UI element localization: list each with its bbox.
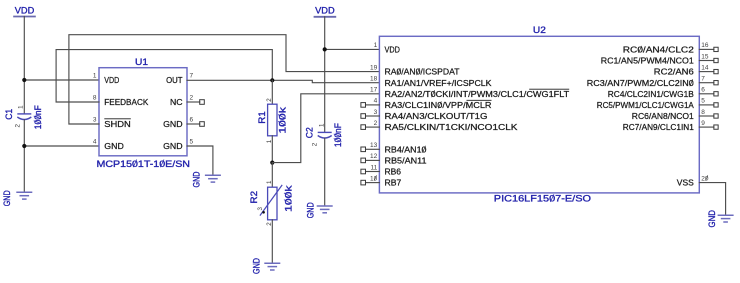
svg-text:7: 7 xyxy=(701,76,705,83)
node junction C1/GND/U1.GND xyxy=(22,144,26,148)
pin 11 (U2 RB6) xyxy=(366,171,380,173)
pin 13 (U2 RB4) xyxy=(366,148,380,150)
pin 3 (U2 RA4) xyxy=(366,115,380,117)
IC U1 body MCP1501 xyxy=(99,68,187,156)
wire branch to U1 pin 4 xyxy=(24,145,99,147)
pin 2 (U2 RA5) xyxy=(366,126,380,128)
svg-text:2: 2 xyxy=(312,142,319,146)
capacitor C1 xyxy=(17,114,31,120)
ground (VSS) xyxy=(718,214,734,216)
svg-text:100nF: 100nF xyxy=(333,123,344,147)
svg-text:RA3/CLC1IN0/VPP/MCLR: RA3/CLC1IN0/VPP/MCLR xyxy=(385,100,492,110)
svg-text:2: 2 xyxy=(266,98,273,102)
svg-text:GND: GND xyxy=(2,190,13,206)
pin 10 (U2 RB7) xyxy=(366,182,380,184)
svg-text:5: 5 xyxy=(190,139,194,146)
svg-text:10: 10 xyxy=(370,175,378,182)
label C2 xyxy=(305,127,316,138)
svg-text:RA1/AN1/VREF+/ICSPCLK: RA1/AN1/VREF+/ICSPCLK xyxy=(385,78,492,88)
potentiometer R2 xyxy=(271,163,273,188)
svg-text:15: 15 xyxy=(701,53,709,60)
svg-text:RA4/AN3/CLKOUT/T1G: RA4/AN3/CLKOUT/T1G xyxy=(385,111,488,121)
wire U1 GND pin 6 stub xyxy=(187,123,200,125)
pin 1 label (C1) xyxy=(18,105,25,109)
wire R2 bottom to ground xyxy=(271,220,273,263)
wire VDD rail down to C2 xyxy=(324,17,326,132)
svg-text:SHDN: SHDN xyxy=(104,119,131,129)
svg-text:RC6/AN8/NCO1: RC6/AN8/NCO1 xyxy=(632,111,694,121)
label R2 xyxy=(249,191,260,204)
svg-text:12: 12 xyxy=(370,153,378,160)
pin 1 label (C2) xyxy=(319,123,326,127)
wire U1 GND pin 5 to ground xyxy=(187,146,213,175)
node junction R1/R2/RA2 xyxy=(270,161,274,165)
svg-text:9: 9 xyxy=(701,120,705,127)
svg-text:GND: GND xyxy=(251,258,262,274)
pin 12 (U2 RB5) xyxy=(366,159,380,161)
svg-text:GND: GND xyxy=(104,141,124,151)
svg-text:VSS: VSS xyxy=(677,178,694,188)
svg-text:RA2/AN2/T0CKI/INT/PWM3/CLC1/CW: RA2/AN2/T0CKI/INT/PWM3/CLC1/CWG1FLT xyxy=(385,89,570,99)
svg-text:VDD: VDD xyxy=(315,6,335,17)
svg-text:6: 6 xyxy=(701,87,705,94)
svg-text:100k: 100k xyxy=(283,185,294,212)
svg-text:13: 13 xyxy=(370,142,378,149)
node junction VDD/C1/U1.VDD xyxy=(22,78,26,82)
wire OUT net to U2 RA1 (jog) xyxy=(272,80,379,82)
wire SHDN to U2 RA0 xyxy=(69,35,380,124)
svg-text:1: 1 xyxy=(93,73,97,80)
wire C1 bottom to GND xyxy=(23,120,25,192)
svg-text:6: 6 xyxy=(190,117,194,124)
pin 16 (U2 RC0) xyxy=(699,48,714,50)
IC U2 body PIC16LF1507 xyxy=(379,36,699,193)
svg-text:RA0/AN0/ICSPDAT: RA0/AN0/ICSPDAT xyxy=(385,67,460,77)
svg-text:16: 16 xyxy=(701,42,709,49)
svg-text:4: 4 xyxy=(93,139,97,146)
svg-text:100k: 100k xyxy=(277,107,288,134)
svg-text:8: 8 xyxy=(93,95,97,102)
svg-text:RC1/AN5/PWM4/NCO1: RC1/AN5/PWM4/NCO1 xyxy=(601,56,694,66)
svg-text:7: 7 xyxy=(190,73,194,80)
svg-text:17: 17 xyxy=(370,87,378,94)
svg-text:VDD: VDD xyxy=(385,45,400,55)
svg-text:8: 8 xyxy=(701,109,705,116)
pin 7 (U2 RC3) xyxy=(699,82,714,84)
svg-text:PIC16LF1507-E/SO: PIC16LF1507-E/SO xyxy=(494,194,591,205)
pin 3 label (R2) xyxy=(257,207,264,211)
svg-text:RC0/AN4/CLC2: RC0/AN4/CLC2 xyxy=(623,45,694,55)
wire VSS to ground xyxy=(699,183,725,215)
svg-text:3: 3 xyxy=(257,207,264,211)
svg-text:RB5/AN11: RB5/AN11 xyxy=(385,156,427,166)
svg-text:1: 1 xyxy=(266,139,273,143)
svg-text:1: 1 xyxy=(319,123,326,127)
svg-text:RC3/AN7/PWM2/CLC2IN0: RC3/AN7/PWM2/CLC2IN0 xyxy=(587,78,694,88)
svg-text:NC: NC xyxy=(170,97,183,107)
svg-text:R1: R1 xyxy=(257,111,268,124)
svg-text:VDD: VDD xyxy=(104,75,119,85)
svg-text:GND: GND xyxy=(163,141,183,151)
label C1 xyxy=(4,109,15,120)
wire U1 OUT to R1 top junction xyxy=(187,79,272,81)
svg-text:OUT: OUT xyxy=(166,75,183,85)
wire C2 bottom to ground xyxy=(324,138,326,206)
value 100nF (C2) xyxy=(333,123,344,147)
wire branch to U1 pin 1 xyxy=(24,79,99,81)
node junction VDD/C2/U2.VDD xyxy=(323,47,327,51)
pin 15 (U2 RC1) xyxy=(699,60,714,62)
svg-text:5: 5 xyxy=(701,98,705,105)
pin 1 label (R2) xyxy=(266,180,273,184)
svg-text:RC5/PWM1/CLC1/CWG1A: RC5/PWM1/CLC1/CWG1A xyxy=(597,100,694,110)
ground (under C2) xyxy=(317,205,333,207)
svg-text:GND: GND xyxy=(163,119,183,129)
svg-text:GND: GND xyxy=(191,171,202,187)
svg-text:RB6: RB6 xyxy=(385,167,402,177)
svg-text:100nF: 100nF xyxy=(33,105,44,129)
svg-text:RB4/AN10: RB4/AN10 xyxy=(385,144,427,154)
wire FEEDBACK to OUT/R1 junction xyxy=(56,50,272,102)
svg-text:U1: U1 xyxy=(135,57,148,68)
pin 6 (U2 RC4) xyxy=(699,93,714,95)
svg-text:20: 20 xyxy=(701,175,709,182)
svg-text:RC7/AN9/CLC1IN1: RC7/AN9/CLC1IN1 xyxy=(623,122,694,132)
svg-text:11: 11 xyxy=(370,164,377,171)
svg-text:MCP1501T-10E/SN: MCP1501T-10E/SN xyxy=(97,159,191,170)
svg-text:4: 4 xyxy=(374,98,378,105)
svg-text:FEEDBACK: FEEDBACK xyxy=(104,97,148,107)
svg-text:3: 3 xyxy=(93,117,97,124)
pin 2 label (R2) xyxy=(266,222,273,226)
label R1 xyxy=(257,111,268,124)
pin 9 (U2 RC7) xyxy=(699,126,714,128)
value 100nF (C1) xyxy=(33,105,44,129)
pin 1 label (R1) xyxy=(266,139,273,143)
wire VDD rail down to C1 xyxy=(23,17,25,114)
svg-text:GND: GND xyxy=(306,202,317,218)
value 100k (R1) xyxy=(277,107,288,134)
pin 5 (U2 RC5) xyxy=(699,104,714,106)
pin 8 (U2 RC6) xyxy=(699,115,714,117)
svg-text:VDD: VDD xyxy=(15,6,35,17)
svg-text:1: 1 xyxy=(374,42,378,49)
ground (bottom left) xyxy=(16,191,32,193)
svg-text:19: 19 xyxy=(370,64,378,71)
capacitor C2 xyxy=(318,132,332,138)
svg-text:2: 2 xyxy=(190,95,194,102)
wire U1 NC pin 2 stub xyxy=(187,101,200,103)
value 100k (R2) xyxy=(283,185,294,212)
pin 4 (U2 RA3) xyxy=(366,104,380,106)
pin 2 label (C2) xyxy=(312,142,319,146)
resistor R1 xyxy=(271,80,273,104)
svg-text:C1: C1 xyxy=(4,109,15,120)
svg-text:2: 2 xyxy=(374,120,378,127)
pin 2 label (R1) xyxy=(266,98,273,102)
svg-text:RC4/CLC2IN1/CWG1B: RC4/CLC2IN1/CWG1B xyxy=(608,89,694,99)
svg-text:2: 2 xyxy=(15,124,22,128)
ground (U1 pin 5) xyxy=(205,174,221,176)
svg-text:GND: GND xyxy=(707,210,718,228)
svg-text:RC2/AN6: RC2/AN6 xyxy=(654,67,694,77)
pin 2 label (C1) xyxy=(15,124,22,128)
svg-text:14: 14 xyxy=(701,64,709,71)
node junction OUT/FEEDBACK/R1 xyxy=(270,78,274,82)
svg-text:U2: U2 xyxy=(533,25,546,36)
svg-text:C2: C2 xyxy=(305,127,316,138)
svg-text:1: 1 xyxy=(266,180,273,184)
svg-text:RB7: RB7 xyxy=(385,178,402,188)
svg-text:1: 1 xyxy=(18,105,25,109)
svg-text:3: 3 xyxy=(374,109,378,116)
ground (under R2) xyxy=(264,262,280,264)
svg-text:18: 18 xyxy=(370,76,378,83)
wire branch to U2 pin 1 VDD xyxy=(325,48,380,50)
svg-text:R2: R2 xyxy=(249,191,260,204)
svg-text:RA5/CLKIN/T1CKI/NCO1CLK: RA5/CLKIN/T1CKI/NCO1CLK xyxy=(385,122,518,132)
wire R1 bottom to U2 RA2 xyxy=(272,94,379,163)
pin 14 (U2 RC2) xyxy=(699,71,714,73)
